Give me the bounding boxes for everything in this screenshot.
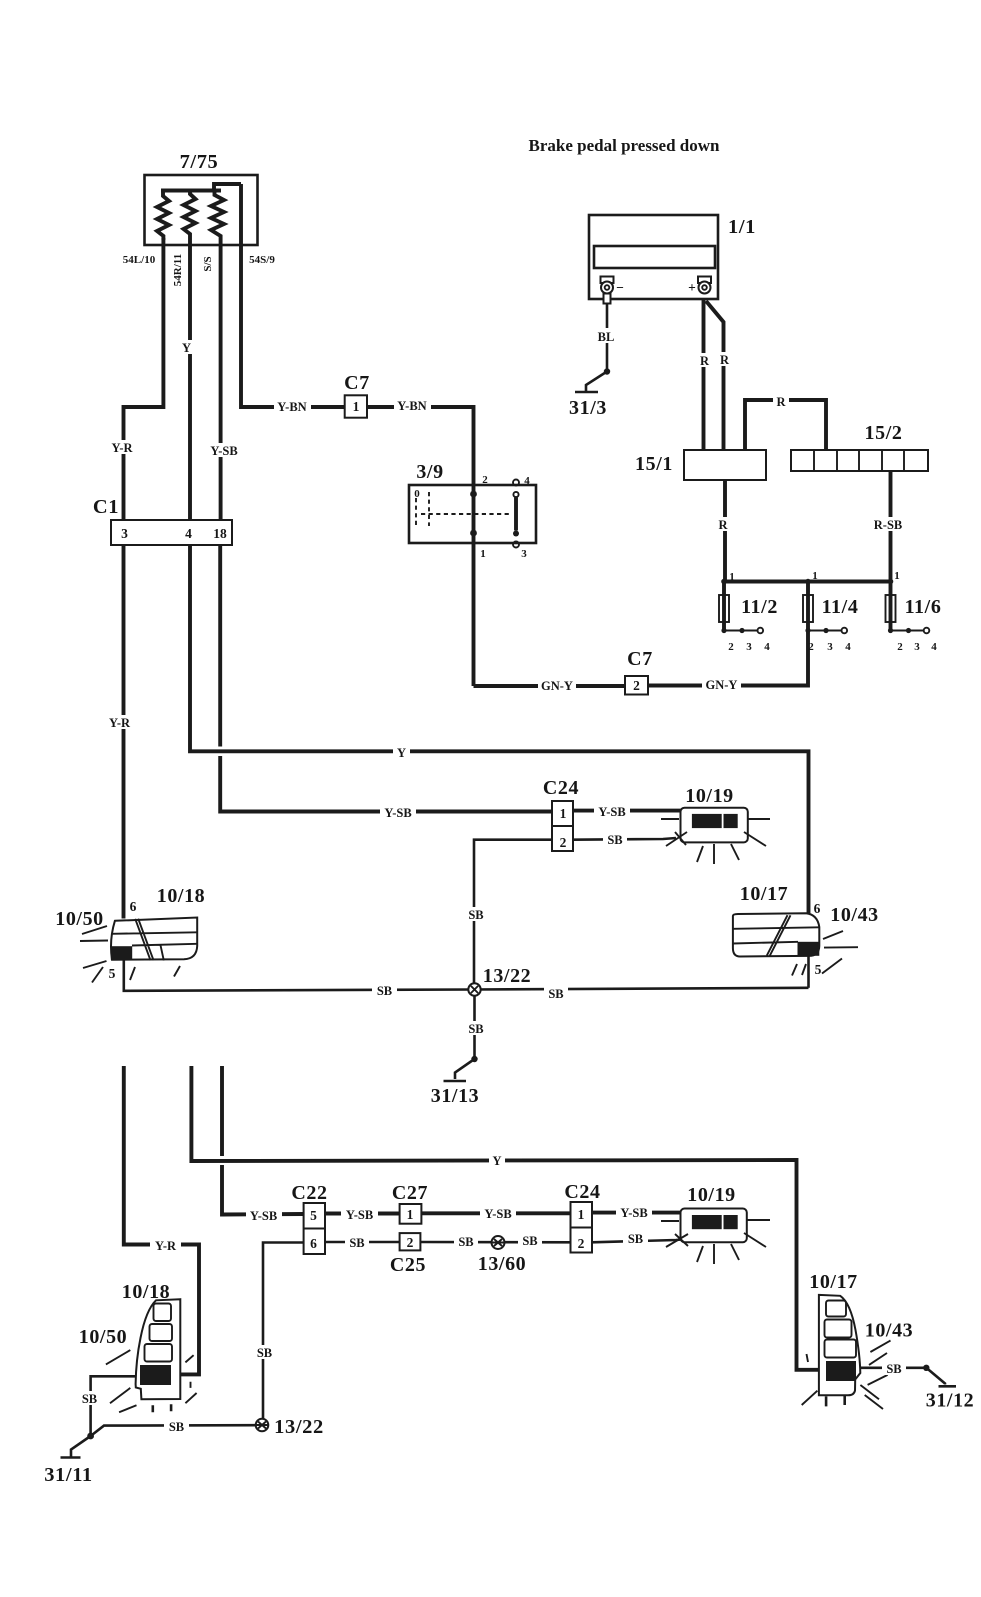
svg-text:3/9: 3/9 xyxy=(416,461,443,483)
svg-text:13/22: 13/22 xyxy=(483,965,532,987)
svg-text:Y-R: Y-R xyxy=(155,1239,177,1253)
ground 31/3 xyxy=(604,368,610,374)
wire SB from wagon lamp 10/17 right to ground 31/12 xyxy=(861,1367,926,1370)
svg-text:−: − xyxy=(616,280,624,295)
wire label Y-SB after C24 xyxy=(594,804,630,818)
wire label SB before 13/60 xyxy=(454,1234,478,1248)
wire label Y long run xyxy=(393,745,410,758)
coil S/S inside 7/75 xyxy=(211,191,224,239)
svg-text:31/12: 31/12 xyxy=(926,1390,975,1412)
svg-text:54S/9: 54S/9 xyxy=(249,254,275,266)
svg-text:10/17: 10/17 xyxy=(809,1271,858,1293)
svg-text:15/2: 15/2 xyxy=(865,422,903,444)
svg-text:2: 2 xyxy=(808,641,814,653)
svg-text:C1: C1 xyxy=(93,496,119,518)
svg-text:R: R xyxy=(700,354,710,368)
svg-text:2: 2 xyxy=(897,641,903,653)
svg-text:R: R xyxy=(718,518,728,532)
svg-text:15/1: 15/1 xyxy=(635,453,673,475)
svg-text:R: R xyxy=(720,353,730,367)
wire label SB to splice lower xyxy=(164,1419,189,1433)
wire label Y-BN left xyxy=(274,398,311,413)
connector C24 lower with pins 1 2 xyxy=(571,1202,593,1253)
svg-text:1/1: 1/1 xyxy=(728,216,756,238)
svg-text:31/11: 31/11 xyxy=(44,1464,93,1486)
ground 31/11 xyxy=(87,1433,94,1440)
svg-text:Brake pedal pressed down: Brake pedal pressed down xyxy=(529,136,721,155)
svg-text:6: 6 xyxy=(814,901,821,916)
connector C27 pin 1 xyxy=(400,1204,422,1224)
wire R from 15/1 up over to fuse strip 15/2 xyxy=(745,400,826,450)
svg-text:Y-SB: Y-SB xyxy=(484,1207,511,1221)
svg-text:10/43: 10/43 xyxy=(830,904,879,926)
connector C22 with pins 5 6 xyxy=(304,1203,325,1254)
splice 13/22 lower xyxy=(256,1419,269,1432)
stop lamp 10/19 upper xyxy=(681,808,748,843)
wire Y-SB from C24 pin 1 to stop lamp 10/19 xyxy=(592,1211,681,1215)
svg-text:10/50: 10/50 xyxy=(79,1326,128,1348)
wire label Y-SB upper xyxy=(206,443,242,457)
wire Y from 7/75 pin 54R/11 down to C1 pin 4 xyxy=(188,236,192,520)
switch 3/9 brake pedal contact box xyxy=(409,485,536,543)
wire Y-SB continuation down then right to connector C22 pin 5 xyxy=(222,1066,304,1217)
fuse strip 15/2 xyxy=(791,450,928,471)
svg-text:1: 1 xyxy=(353,399,360,414)
svg-text:GN-Y: GN-Y xyxy=(541,679,573,693)
battery negative terminal clamp xyxy=(601,277,614,284)
wire Y from C1 pin 4 down, long run right and down to tail lamp 10/17 pin 6 xyxy=(190,545,809,915)
tail lamp 10/18 upper left xyxy=(111,918,197,960)
svg-text:3: 3 xyxy=(914,641,920,653)
svg-text:1: 1 xyxy=(729,571,735,583)
wire GN-Y from C7 pin 2 right and up to bulb sensor 11/4 pin 2 xyxy=(648,631,808,686)
svg-text:2: 2 xyxy=(482,474,488,486)
svg-text:7/75: 7/75 xyxy=(180,151,219,173)
svg-text:Y: Y xyxy=(492,1154,501,1168)
wire SB from C24 pin 2 toward 10/19 xyxy=(592,1239,687,1242)
wire R battery positive down to fusebox 15/1 xyxy=(702,300,706,450)
svg-text:SB: SB xyxy=(548,987,563,1001)
svg-text:Y-SB: Y-SB xyxy=(598,805,625,819)
connector C1 bar with pins 3 4 18 xyxy=(111,520,232,545)
svg-text:GN-Y: GN-Y xyxy=(706,678,738,692)
svg-text:S/S: S/S xyxy=(202,256,214,271)
bulb sensor 11/2 xyxy=(719,595,729,622)
svg-text:C27: C27 xyxy=(392,1182,428,1204)
svg-text:1: 1 xyxy=(560,806,567,821)
svg-text:5: 5 xyxy=(310,1208,317,1223)
ground 31/12 xyxy=(923,1365,929,1371)
wire SB from splice 13/22 down to ground 31/13 xyxy=(473,996,476,1059)
wagon tail lamp 10/18 lower left xyxy=(136,1299,181,1399)
splice 13/22 upper xyxy=(468,983,480,995)
wire label Y-SB before C22 xyxy=(246,1208,282,1222)
wire label R below 15/1 xyxy=(715,517,731,531)
svg-text:Y-BN: Y-BN xyxy=(277,400,306,414)
svg-text:10/50: 10/50 xyxy=(55,908,104,930)
wire SB from C24 pin 2 left and down to splice 13/22 xyxy=(474,840,552,984)
battery positive terminal clamp xyxy=(698,277,711,284)
svg-text:4: 4 xyxy=(764,641,770,653)
svg-text:SB: SB xyxy=(886,1362,901,1376)
wire label Y upper xyxy=(178,340,195,354)
pin marks below 10/18 lower xyxy=(153,1404,171,1412)
svg-text:SB: SB xyxy=(607,833,622,847)
rays around stop lamp 10/19 lower xyxy=(661,1220,770,1264)
svg-text:0: 0 xyxy=(414,488,420,500)
svg-text:1: 1 xyxy=(578,1207,585,1222)
wire label SB vertical from C22 xyxy=(252,1345,277,1359)
wire label SB to ground 31/12 xyxy=(882,1361,906,1375)
wire through fuse 11/4 xyxy=(806,582,810,631)
svg-text:C24: C24 xyxy=(543,777,579,799)
wire labels R R from battery xyxy=(697,353,712,367)
svg-text:10/43: 10/43 xyxy=(865,1320,914,1342)
tail lamp 10/17 upper right xyxy=(733,913,819,956)
svg-text:2: 2 xyxy=(633,678,640,693)
wire label SB right bus xyxy=(544,985,568,1000)
wire R from fuse 15/1 down to lamp sensor bus xyxy=(723,480,727,582)
svg-text:1: 1 xyxy=(407,1207,414,1222)
svg-text:2: 2 xyxy=(728,641,734,653)
svg-text:Y-SB: Y-SB xyxy=(384,806,411,820)
svg-text:Y-R: Y-R xyxy=(111,441,133,455)
wire label SB left bus xyxy=(372,983,397,997)
svg-text:10/19: 10/19 xyxy=(685,785,734,807)
wire Y-R from 7/75 pin 54L/10 down and jog left to C1 pin 3 xyxy=(124,238,164,520)
svg-text:Y-BN: Y-BN xyxy=(397,399,426,413)
svg-text:4: 4 xyxy=(845,641,851,653)
svg-text:SB: SB xyxy=(468,908,483,922)
svg-text:54R/11: 54R/11 xyxy=(172,254,184,286)
connector C7 pin 1 xyxy=(345,395,367,417)
svg-text:C25: C25 xyxy=(390,1254,426,1276)
fusebox 15/1 xyxy=(684,450,766,480)
wire BL battery negative to ground 31/3 xyxy=(606,304,609,372)
rays for brake lamp 10/43 lower xyxy=(802,1341,891,1410)
wire label Y-R upper xyxy=(107,440,138,454)
ground 31/13 xyxy=(471,1056,477,1062)
wire label SB after C22 pin 6 xyxy=(345,1235,369,1249)
connector C7 pin 2 xyxy=(625,676,648,695)
rays for brake lamp 10/43 upper xyxy=(792,931,858,976)
wire label R to 15/2 xyxy=(773,394,789,407)
wire label R-SB below 15/2 xyxy=(870,517,907,531)
rays around stop lamp 10/19 upper xyxy=(661,819,770,864)
svg-text:13/22: 13/22 xyxy=(274,1416,324,1438)
svg-text:2: 2 xyxy=(407,1235,414,1250)
svg-text:2: 2 xyxy=(560,835,567,850)
svg-text:6: 6 xyxy=(310,1236,317,1251)
svg-text:C7: C7 xyxy=(627,648,653,670)
coil 54L/10 inside 7/75 xyxy=(157,191,169,241)
svg-text:1: 1 xyxy=(812,570,818,582)
svg-text:3: 3 xyxy=(746,641,752,653)
wire through fuse 11/6 xyxy=(889,582,893,631)
wire Y-BN from 7/75 pin 54S/9 down then right to connector C7 pin 1 and on to switch 3/9 pin 2 xyxy=(241,184,474,485)
wire label Y-BN right xyxy=(394,397,431,412)
svg-text:Y-SB: Y-SB xyxy=(250,1209,277,1223)
wire bus joining 11/2 11/4 11/6 pin 1 xyxy=(724,580,891,584)
wire label SB after C24 pin 2 xyxy=(603,832,627,846)
wire SB from wagon lamp 10/18 left to ground junction and splice 13/22 xyxy=(91,1376,256,1436)
svg-text:+: + xyxy=(688,280,696,295)
wire SB from tail lamp 10/17 pin 5 down to bus xyxy=(807,956,810,988)
svg-text:13/60: 13/60 xyxy=(478,1253,527,1275)
svg-text:4: 4 xyxy=(185,526,192,541)
svg-text:18: 18 xyxy=(213,526,227,541)
svg-text:R-SB: R-SB xyxy=(874,518,902,532)
svg-text:Y-SB: Y-SB xyxy=(620,1206,647,1220)
wire R second feed from battery positive to 15/1 xyxy=(706,301,724,450)
wire Y-SB from C27 pin 1 to connector C24 pin 1 xyxy=(421,1211,570,1215)
svg-text:11/6: 11/6 xyxy=(905,596,942,618)
battery 1/1 inner cell bar xyxy=(594,246,715,268)
wire label Y-R mid xyxy=(104,715,135,729)
wire Y-R continuation down to lower run xyxy=(124,1066,199,1374)
wire label SB splice branch xyxy=(464,907,488,921)
wire Y-SB from 7/75 pin S/S down to C1 pin 18 xyxy=(219,238,223,520)
pin marks below 10/17 lower xyxy=(826,1395,845,1406)
svg-text:SB: SB xyxy=(257,1346,272,1360)
svg-text:SB: SB xyxy=(377,984,392,998)
wire Y-R from C1 pin 3 down to tail lamp 10/18 pin 6 xyxy=(122,545,126,919)
wire R-SB from fuse strip 15/2 down to lamp sensor bus xyxy=(889,471,893,582)
battery 1/1 outer case xyxy=(589,215,718,299)
svg-text:54L/10: 54L/10 xyxy=(123,254,156,266)
svg-text:4: 4 xyxy=(524,475,530,487)
svg-text:10/18: 10/18 xyxy=(122,1281,171,1303)
rays for brake lamp 10/50 lower xyxy=(106,1350,197,1412)
wire label Y-SB after C22 xyxy=(341,1207,378,1221)
wire through fuse 11/2 xyxy=(722,582,726,631)
connector C24 upper with pins 1 2 xyxy=(552,801,573,851)
svg-text:10/17: 10/17 xyxy=(740,883,789,905)
svg-text:SB: SB xyxy=(349,1236,364,1250)
svg-text:11/2: 11/2 xyxy=(741,596,778,618)
wire GN-Y from 3/9 pin 1 right to connector C7 pin 2 xyxy=(474,684,626,688)
svg-text:C7: C7 xyxy=(344,372,370,394)
svg-text:Y: Y xyxy=(182,341,191,355)
svg-text:10/18: 10/18 xyxy=(157,885,206,907)
svg-text:C24: C24 xyxy=(564,1181,600,1203)
wire SB bus from 10/18 pin 5 through splice 13/22 to 10/17 pin 5 xyxy=(124,960,809,991)
svg-text:Y-SB: Y-SB xyxy=(210,444,237,458)
switch 3/9 actuator dashed symbol xyxy=(416,492,509,526)
switch 3/9 movable contact pins 4-3 xyxy=(513,480,519,486)
svg-text:6: 6 xyxy=(130,899,137,914)
svg-text:Y-R: Y-R xyxy=(109,716,131,730)
svg-text:10/19: 10/19 xyxy=(687,1184,736,1206)
svg-text:SB: SB xyxy=(628,1232,643,1246)
wire label Y-R lower xyxy=(150,1238,181,1252)
svg-text:31/3: 31/3 xyxy=(569,397,607,419)
svg-text:SB: SB xyxy=(169,1420,184,1434)
svg-text:SB: SB xyxy=(458,1235,473,1249)
wire label SB lamp ground branch xyxy=(78,1391,101,1405)
wire SB from C22 pin 6 left and down to splice 13/22 xyxy=(263,1243,304,1419)
wagon tail lamp 10/17 lower right xyxy=(819,1295,860,1395)
wire label SB after C24 pin 2 lower xyxy=(623,1231,648,1245)
svg-text:1: 1 xyxy=(480,548,486,560)
svg-text:2: 2 xyxy=(578,1236,585,1251)
stop lamp 10/19 lower xyxy=(681,1209,747,1243)
svg-text:3: 3 xyxy=(827,641,833,653)
svg-text:31/13: 31/13 xyxy=(431,1085,480,1107)
wire label Y-SB mid xyxy=(380,805,416,819)
svg-text:Y: Y xyxy=(397,746,406,760)
svg-text:SB: SB xyxy=(522,1234,537,1248)
svg-text:BL: BL xyxy=(598,330,615,344)
svg-text:R: R xyxy=(776,395,786,409)
wire label Y lower bus xyxy=(489,1153,505,1167)
coil 54R/11 inside 7/75 xyxy=(184,191,196,237)
svg-text:SB: SB xyxy=(468,1022,483,1036)
svg-text:3: 3 xyxy=(121,526,128,541)
svg-text:4: 4 xyxy=(931,641,937,653)
wire label SB to ground 31/13 xyxy=(464,1021,488,1035)
wire label SB after 13/60 xyxy=(518,1233,542,1247)
wire Y-SB from C24 pin 1 to stop lamp 10/19 xyxy=(573,809,681,813)
splice 13/60 xyxy=(492,1236,505,1249)
wire Y-SB from C22 pin 5 to connector C27 pin 1 xyxy=(325,1212,400,1216)
svg-text:SB: SB xyxy=(82,1392,97,1406)
component 7/75 stop lamp relay box xyxy=(145,175,258,245)
wire label Y-SB after C27 xyxy=(480,1206,516,1220)
svg-text:5: 5 xyxy=(815,962,822,977)
node junction R wire and bus xyxy=(721,579,727,585)
svg-text:11/4: 11/4 xyxy=(822,596,859,618)
svg-text:3: 3 xyxy=(521,548,527,560)
wire label GN-Y left xyxy=(538,677,576,692)
svg-text:5: 5 xyxy=(109,966,116,981)
svg-text:Y-SB: Y-SB xyxy=(346,1208,373,1222)
wire SB from C25 pin 2 through splice 13/60 to C24 pin 2 xyxy=(420,1241,570,1244)
wire label BL xyxy=(595,328,618,343)
bulb sensor 11/6 xyxy=(886,595,896,622)
svg-text:C22: C22 xyxy=(291,1182,327,1204)
wire Y-SB from C1 pin 18 down then right to connector C24 pin 1 xyxy=(220,545,552,812)
svg-text:1: 1 xyxy=(894,570,900,582)
connector C25 pin 2 xyxy=(400,1233,421,1250)
wire SB from C24 pin 2 right toward 10/19 xyxy=(573,838,676,840)
wire SB from C22 pin 6 to connector C25 pin 2 xyxy=(325,1241,400,1244)
wire label GN-Y right xyxy=(702,676,741,691)
rays for brake lamp 10/50 upper xyxy=(80,926,180,983)
wire label Y-SB after C24 lower xyxy=(616,1205,652,1219)
wire through switch 3/9 pins 2-1 down to GN-Y run xyxy=(472,485,476,686)
wire Y continuation down then right across to wagon tail lamp 10/17 xyxy=(191,1066,819,1370)
node junction dots on 3/9 through-wire xyxy=(470,491,477,498)
bus joining coil tops in 7/75 xyxy=(161,184,241,191)
bulb sensor 11/4 xyxy=(803,595,813,622)
